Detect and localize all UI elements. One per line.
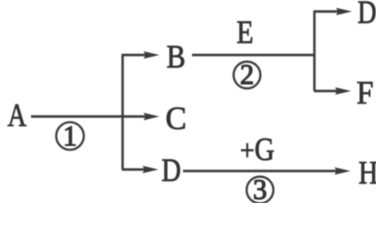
svg-text:E: E [237, 15, 254, 51]
svg-text:D: D [162, 153, 182, 189]
svg-text:+: + [240, 136, 255, 167]
svg-text:H: H [359, 156, 376, 192]
svg-text:A: A [8, 98, 27, 134]
svg-text:3: 3 [253, 175, 267, 203]
svg-text:C: C [166, 101, 187, 137]
svg-text:F: F [357, 76, 374, 112]
svg-text:1: 1 [63, 122, 77, 153]
svg-text:2: 2 [240, 60, 254, 91]
svg-text:B: B [167, 40, 186, 76]
svg-text:G: G [255, 132, 275, 168]
svg-text:D: D [358, 0, 376, 31]
